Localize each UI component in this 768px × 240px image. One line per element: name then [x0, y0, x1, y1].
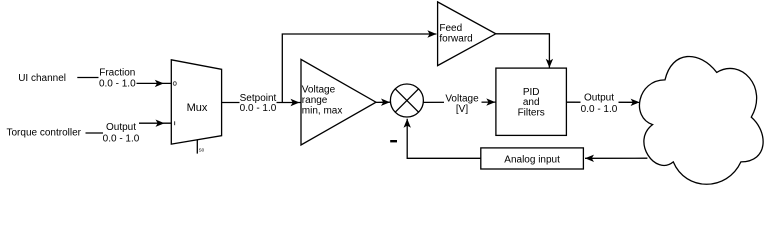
minus sign: [390, 140, 397, 142]
block: PID and Filters: [496, 68, 567, 135]
svg-text:min, max: min, max: [302, 105, 343, 116]
svg-text:Analog input: Analog input: [504, 154, 560, 165]
mux pin label 0: [173, 82, 176, 86]
wire: PID to plant cloud: [566, 99, 640, 106]
svg-text:Output: Output: [106, 122, 136, 133]
mux select pin S0: [197, 140, 204, 154]
wire: Torque controller to Mux input 1: [86, 120, 172, 134]
block: Analog input: [481, 148, 584, 169]
feed-forward amplifier: [438, 2, 496, 66]
amplifier: Voltage range min, max: [301, 59, 376, 145]
svg-text:Feed: Feed: [439, 23, 462, 34]
wire: summing junction to PID: [423, 98, 496, 105]
svg-text:Mux: Mux: [187, 102, 208, 114]
svg-text:Fraction: Fraction: [99, 68, 135, 79]
wire: Voltage range to summing junction: [376, 99, 390, 106]
mux pin label 1: [174, 121, 176, 125]
wire: branch to Feed forward: [282, 30, 436, 102]
svg-text:0.0 - 1.0: 0.0 - 1.0: [581, 104, 618, 115]
svg-text:forward: forward: [439, 33, 472, 44]
summing junction: [390, 84, 423, 117]
svg-text:Filters: Filters: [518, 108, 545, 119]
svg-text:Voltage: Voltage: [302, 85, 336, 96]
plant cloud: [639, 56, 763, 184]
svg-text:[V]: [V]: [456, 104, 468, 115]
svg-text:0.0 - 1.0: 0.0 - 1.0: [240, 103, 277, 114]
wire: UI channel to Mux input 0: [77, 78, 171, 88]
svg-text:Torque controller: Torque controller: [7, 128, 82, 139]
edge label: Voltage [V]: [444, 93, 482, 115]
edge label: Output 0.0 - 1.0: [581, 92, 619, 115]
mux U1 body: [171, 60, 221, 144]
edge label: Fraction 0.0 - 1.0: [99, 67, 137, 90]
wire: cloud to Analog input: [585, 155, 647, 162]
svg-text:0.0 - 1.0: 0.0 - 1.0: [99, 79, 136, 90]
svg-text:Voltage: Voltage: [445, 94, 479, 105]
edge label: Output 0.0 - 1.0: [103, 122, 140, 145]
svg-text:S0: S0: [199, 148, 205, 153]
svg-text:range: range: [302, 95, 328, 106]
svg-text:PID: PID: [523, 87, 540, 98]
svg-text:and: and: [523, 97, 540, 108]
svg-text:Output: Output: [584, 92, 614, 103]
edge label: Setpoint 0.0 - 1.0: [240, 93, 277, 115]
svg-text:UI channel: UI channel: [18, 73, 66, 84]
wire: Analog input to summing junction: [404, 119, 481, 159]
wire: Feed forward to PID: [496, 34, 553, 68]
wire: Setpoint (Mux to Voltage range): [222, 99, 301, 106]
svg-text:0.0 - 1.0: 0.0 - 1.0: [103, 133, 140, 144]
